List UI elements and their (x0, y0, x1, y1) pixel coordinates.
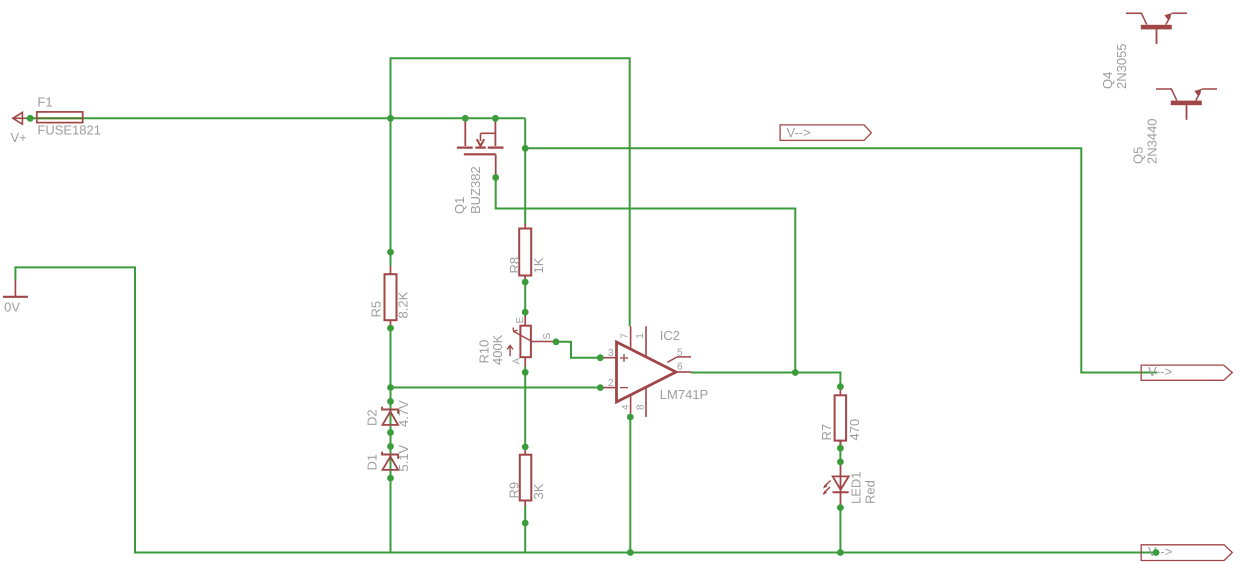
junction Q1 gate pin (492, 174, 499, 181)
resistor R8 (507, 224, 546, 280)
svg-text:2N3055: 2N3055 (1114, 43, 1129, 89)
junction D1 cathode pin (387, 443, 394, 450)
transistor Q1 BUZ382 (452, 119, 504, 214)
potentiometer R10 400K (477, 316, 554, 367)
svg-text:S: S (542, 333, 553, 340)
wire R7 bottom to LED (839, 441, 841, 463)
svg-text:4: 4 (620, 404, 631, 410)
svg-text:V-->: V--> (1148, 544, 1172, 559)
svg-text:V+: V+ (11, 130, 27, 145)
svg-text:D2: D2 (365, 409, 380, 426)
wire 0V rail (15, 267, 1156, 552)
svg-text:5.1V: 5.1V (396, 444, 411, 471)
svg-text:2: 2 (608, 378, 614, 389)
svg-text:V-->: V--> (787, 125, 811, 140)
svg-text:F1: F1 (37, 95, 52, 110)
supply arrow V+ (11, 112, 27, 145)
svg-text:LED1: LED1 (849, 471, 864, 504)
wire V+ rail from fuse to Q1 (26, 117, 526, 119)
junction D2 anode pin (387, 429, 394, 436)
svg-text:R9: R9 (507, 482, 522, 499)
svg-text:IC2: IC2 (660, 328, 680, 343)
junction at F1 pin 1 (V+ net) (27, 115, 34, 122)
wire top rail to op-amp pin7 (391, 58, 630, 326)
svg-text:Q1: Q1 (452, 197, 467, 214)
junction zener node to op-amp pin 2 wire (387, 384, 394, 391)
junction D2 cathode pin (387, 398, 394, 405)
junction R10 pin A (522, 369, 529, 376)
svg-text:V-->: V--> (1148, 364, 1172, 379)
wire R10 wiper to pin3 (556, 342, 602, 358)
wire R5 bottom through zeners to rail (390, 327, 392, 553)
junction R5 pin 1 (387, 249, 394, 256)
svg-text:2N3440: 2N3440 (1145, 118, 1160, 164)
resistor R9 (507, 450, 547, 507)
wire R9 bottom to rail (524, 505, 526, 553)
resistor R7 (819, 389, 862, 447)
wire Q1 gate to op-amp output (496, 179, 796, 373)
svg-text:5: 5 (677, 347, 683, 358)
svg-text:R7: R7 (819, 424, 834, 441)
svg-text:7: 7 (619, 333, 630, 339)
LED1 Red (823, 463, 878, 507)
junction R10 pin E (522, 309, 529, 316)
svg-text:6: 6 (677, 361, 683, 372)
junction LED1 cathode pin (837, 504, 844, 511)
svg-text:3: 3 (608, 348, 614, 359)
junction IC2 pin 3 (597, 354, 604, 361)
junction R9 pin 2 (522, 520, 529, 527)
junction Q1 drain pin (492, 115, 499, 122)
junction IC2 pin 2 (597, 384, 604, 391)
junction Q1 source pin (462, 115, 469, 122)
junction R10 wiper pin S (553, 338, 560, 345)
svg-text:8: 8 (635, 404, 646, 410)
svg-text:LM741P: LM741P (660, 387, 708, 402)
svg-text:Q4: Q4 (1100, 72, 1115, 89)
svg-text:R5: R5 (369, 301, 384, 318)
svg-text:BUZ382: BUZ382 (468, 166, 483, 214)
resistor R5 (369, 266, 411, 328)
wire zener node to pin2 (391, 387, 603, 389)
transistor Q4 2N3055 (1100, 13, 1187, 89)
wire R10 to R9 (524, 367, 526, 450)
zener diode D2 4.7V (365, 400, 412, 427)
wire Q1 source to V output flag (525, 148, 1157, 372)
fuse F1 (37, 95, 101, 138)
svg-text:1K: 1K (531, 257, 546, 273)
junction 0V rail / LED branch (837, 549, 844, 556)
svg-text:8.2K: 8.2K (396, 291, 411, 318)
svg-text:470: 470 (847, 419, 862, 441)
wire op-amp pin4 to 0V rail (629, 416, 631, 553)
ground 0V (3, 280, 28, 315)
junction IC2 pin 4 (627, 414, 634, 421)
svg-text:3K: 3K (531, 483, 546, 499)
svg-text:1: 1 (635, 333, 646, 339)
wire x525 down to R8 (524, 118, 526, 224)
svg-text:Q5: Q5 (1130, 147, 1145, 164)
wire R5 top (390, 118, 392, 266)
junction op-amp output / gate feedback (792, 369, 799, 376)
op-amp IC2 LM741P (602, 326, 708, 417)
wire R8 to R10 (524, 280, 526, 317)
svg-text:R8: R8 (507, 257, 522, 274)
junction 0V rail / IC2 pin 4 wire (627, 549, 634, 556)
svg-text:A: A (512, 358, 523, 365)
svg-text:0V: 0V (4, 300, 20, 315)
junction Q1 drain wire to output net (522, 145, 529, 152)
junction R8 pin 2 (522, 279, 529, 286)
svg-text:400K: 400K (490, 334, 505, 365)
junction R7 pin 1 (837, 383, 844, 390)
junction R5 pin 2 (387, 325, 394, 332)
junction R9 pin 1 (522, 444, 529, 451)
junction D1 anode pin (387, 475, 394, 482)
svg-text:FUSE1821: FUSE1821 (37, 123, 101, 138)
junction LED1 anode pin (837, 459, 844, 466)
junction R7 pin 2 (837, 445, 844, 452)
transistor Q5 2N3440 (1130, 89, 1217, 164)
svg-text:E: E (515, 317, 526, 324)
zener diode D1 5.1V (365, 444, 412, 471)
wire op-amp output to R7 (691, 373, 840, 389)
svg-text:Red: Red (862, 480, 877, 504)
wire LED bottom to rail (839, 507, 841, 553)
junction V+ rail / R5 top branch (387, 115, 394, 122)
svg-text:4.7V: 4.7V (396, 400, 411, 427)
svg-text:D1: D1 (365, 454, 380, 471)
